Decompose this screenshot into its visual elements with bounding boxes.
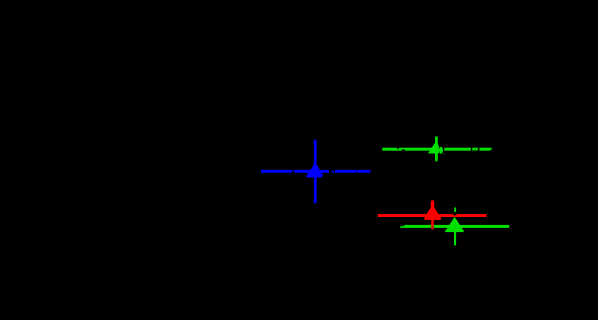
green1 triangle marker <box>428 141 444 153</box>
black cut on green1 line right end bottom corner <box>490 150 492 151</box>
black notch on green1 line at x=398 (from top) <box>397 147 400 150</box>
olive mixing overlay at red bar crossing green line <box>431 225 434 228</box>
green2 triangle base lip <box>445 230 463 232</box>
red bar shoulder (narrow upper widening) <box>431 202 435 208</box>
green1 errorbar horizontal line <box>382 148 491 151</box>
blue errorbar horizontal line <box>261 170 370 173</box>
green2 errorbar vertical line lower part <box>454 230 456 245</box>
small blue triangle in gap <box>331 170 334 173</box>
green2 vertical line bottom tip <box>454 244 456 247</box>
green1 triangle corner speck right of diamond <box>443 153 444 155</box>
green2 errorbar horizontal line <box>404 225 509 228</box>
black blob marker over red line at x=455 <box>453 212 458 216</box>
red triangle base lip <box>424 217 441 220</box>
green2 line left tip step1 <box>401 226 404 228</box>
green2 triangle marker <box>446 217 463 231</box>
black notch on blue line at x=293 <box>289 170 297 178</box>
green1 diamond marker <box>439 147 443 154</box>
red errorbar horizontal line <box>378 214 487 217</box>
black notch on blue line at x=357 (from below) <box>355 171 359 174</box>
black bite over green1 triangle right side <box>439 140 444 155</box>
black cut on blue triangle bottom-right corner <box>321 173 326 177</box>
blue triangle marker <box>307 162 325 177</box>
green2 vertical line top stub <box>454 208 456 212</box>
olive mixing marker under red bar <box>430 225 435 229</box>
black notch on green1 line at x=403 (from below) <box>401 149 405 151</box>
blue errorbar vertical line <box>314 140 317 204</box>
green1 errorbar vertical line <box>435 137 438 161</box>
red vertical line bottom tip <box>431 229 434 230</box>
black gap on green1 line x=471 <box>471 148 472 151</box>
green1 vertical line bottom tip <box>435 161 438 162</box>
red errorbar vertical line <box>431 200 434 229</box>
dark green under middle dash of green1 line <box>472 150 478 151</box>
blue triangle marker secondary (staircase left edge) <box>306 165 322 177</box>
black gap on blue line x=329-335 <box>329 169 335 173</box>
black gap on green1 line x=478 <box>478 148 480 151</box>
green2 line left tip step2 <box>400 227 401 228</box>
red triangle marker <box>424 205 440 217</box>
